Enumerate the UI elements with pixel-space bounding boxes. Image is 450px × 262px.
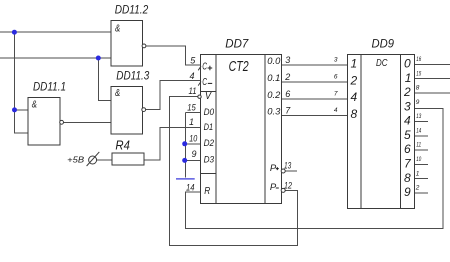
wire +5V terminal to R4 (97, 159, 113, 161)
svg-text:11: 11 (189, 86, 197, 96)
logic gate DD11.3 (111, 69, 149, 134)
svg-text:0.1: 0.1 (267, 73, 280, 84)
svg-text:&: & (115, 87, 120, 99)
svg-text:12: 12 (284, 180, 292, 190)
wire DD9 output 2 (415, 92, 450, 94)
svg-text:1: 1 (189, 117, 194, 127)
svg-text:10: 10 (189, 133, 197, 143)
wire node A to DD11.1 input 1 (15, 109, 29, 111)
wire DD7 out 0.0 to DD9 in 1 (282, 64, 348, 66)
svg-text:15: 15 (187, 102, 196, 112)
ground bar (176, 178, 195, 180)
svg-text:6: 6 (334, 74, 338, 81)
svg-text:&: & (115, 23, 120, 35)
svg-text:9: 9 (191, 149, 196, 159)
wire P- pin 12 feedback to V pin 11 (170, 97, 298, 246)
svg-text:4: 4 (334, 107, 338, 114)
svg-text:14: 14 (186, 182, 195, 192)
svg-text:2: 2 (403, 85, 411, 99)
wire DD11.2 output to pin 5 C+ (146, 46, 201, 65)
svg-text:D2: D2 (204, 138, 215, 149)
decoder DD9 (334, 36, 422, 208)
svg-text:DD11.3: DD11.3 (116, 69, 149, 83)
svg-text:&: & (32, 99, 37, 111)
wire net B vertical to DD11.3 input 1 (98, 58, 111, 100)
wire DD7 out 0.3 to DD9 in 8 (282, 115, 348, 117)
dynamic input slash C- (198, 82, 201, 86)
wire DD7 out 0.1 to DD9 in 2 (282, 81, 348, 83)
wire net B input (0, 57, 111, 59)
svg-text:5: 5 (404, 128, 411, 142)
svg-text:16: 16 (416, 56, 421, 63)
svg-text:D3: D3 (204, 155, 215, 166)
wire DD11.3 output to pin 4 C- (146, 80, 201, 109)
junction node A lower (12, 107, 17, 112)
svg-text:DD11.2: DD11.2 (115, 3, 149, 17)
svg-text:0.0: 0.0 (267, 56, 281, 67)
svg-text:2: 2 (350, 74, 358, 88)
wire pin 10 D2 (186, 143, 201, 145)
svg-text:DC: DC (376, 57, 388, 69)
svg-text:0: 0 (404, 57, 411, 71)
svg-text:7: 7 (334, 90, 338, 97)
logic gate DD11.1 (28, 80, 66, 145)
svg-text:13: 13 (284, 161, 291, 171)
wire DD9 output 7 stub (415, 163, 429, 165)
svg-text:4: 4 (189, 71, 194, 81)
dynamic input slash C+ (198, 66, 201, 70)
svg-text:13: 13 (416, 113, 421, 120)
wire DD9 output 6 stub (415, 149, 429, 151)
inversion bubble V input (198, 95, 201, 98)
wire net A vertical to DD11.1 (15, 32, 29, 133)
wire DD9 output 5 stub (415, 135, 429, 137)
inversion bubble P- (281, 188, 285, 192)
resistor R4 (112, 138, 144, 166)
junction node A (12, 30, 17, 35)
svg-text:3: 3 (285, 55, 290, 65)
svg-text:DD9: DD9 (372, 36, 395, 50)
counter DD7 (186, 36, 292, 203)
svg-text:9: 9 (416, 99, 420, 106)
svg-text:4: 4 (351, 90, 358, 104)
svg-text:D0: D0 (204, 107, 215, 118)
svg-text:6: 6 (285, 89, 290, 99)
wire DD9 output 9 stub (415, 192, 429, 194)
svg-text:15: 15 (416, 70, 421, 77)
svg-text:4: 4 (404, 114, 411, 128)
wire DD9 output 1 (415, 78, 450, 80)
svg-text:D1: D1 (204, 122, 214, 133)
svg-text:1: 1 (416, 170, 420, 177)
svg-text:8: 8 (416, 85, 420, 92)
+5V terminal (67, 152, 99, 166)
svg-text:DD7: DD7 (225, 36, 249, 50)
inversion bubble P+ (281, 169, 285, 173)
svg-text:CT2: CT2 (229, 58, 249, 75)
wire DD7 out 0.2 to DD9 in 4 (282, 98, 348, 100)
svg-text:R4: R4 (115, 138, 129, 153)
svg-text:9: 9 (404, 185, 411, 199)
wire P+ pin 13 stub (285, 170, 297, 172)
svg-text:1: 1 (351, 57, 358, 71)
svg-text:11: 11 (416, 142, 421, 149)
wire DD9 output 8 stub (415, 178, 429, 180)
svg-text:2: 2 (284, 72, 290, 82)
wire pin 9 D3 (186, 159, 201, 161)
svg-text:10: 10 (416, 156, 421, 163)
svg-text:0.2: 0.2 (267, 90, 281, 101)
svg-text:6: 6 (404, 142, 411, 156)
wire R4 to pin 1 D1 (144, 128, 200, 160)
wire pin 15 D0 common (186, 113, 201, 178)
junction D2 (182, 141, 187, 146)
svg-text:14: 14 (416, 127, 421, 134)
svg-text:DD11.1: DD11.1 (33, 80, 66, 94)
svg-text:8: 8 (351, 107, 358, 121)
wire DD9 output 4 stub (415, 121, 429, 123)
wire net A input (0, 31, 111, 33)
svg-text:8: 8 (404, 171, 411, 185)
junction node B (96, 56, 101, 61)
logic gate DD11.2 (111, 3, 148, 66)
svg-text:2: 2 (415, 185, 420, 192)
svg-text:3: 3 (404, 99, 411, 113)
svg-text:R: R (204, 186, 210, 197)
svg-text:3: 3 (334, 57, 338, 64)
svg-text:+5В: +5В (67, 155, 84, 165)
junction D3 (182, 158, 187, 163)
svg-text:1: 1 (405, 71, 412, 85)
svg-text:C: C (202, 77, 207, 88)
wire DD9 output 0 (415, 63, 450, 65)
wire R pin 14 feedback from DD9 output 3 (186, 109, 444, 229)
svg-text:C: C (202, 62, 207, 73)
svg-text:0.3: 0.3 (267, 107, 281, 118)
wire DD11.1 output to DD11.3 input 2 (64, 121, 112, 123)
